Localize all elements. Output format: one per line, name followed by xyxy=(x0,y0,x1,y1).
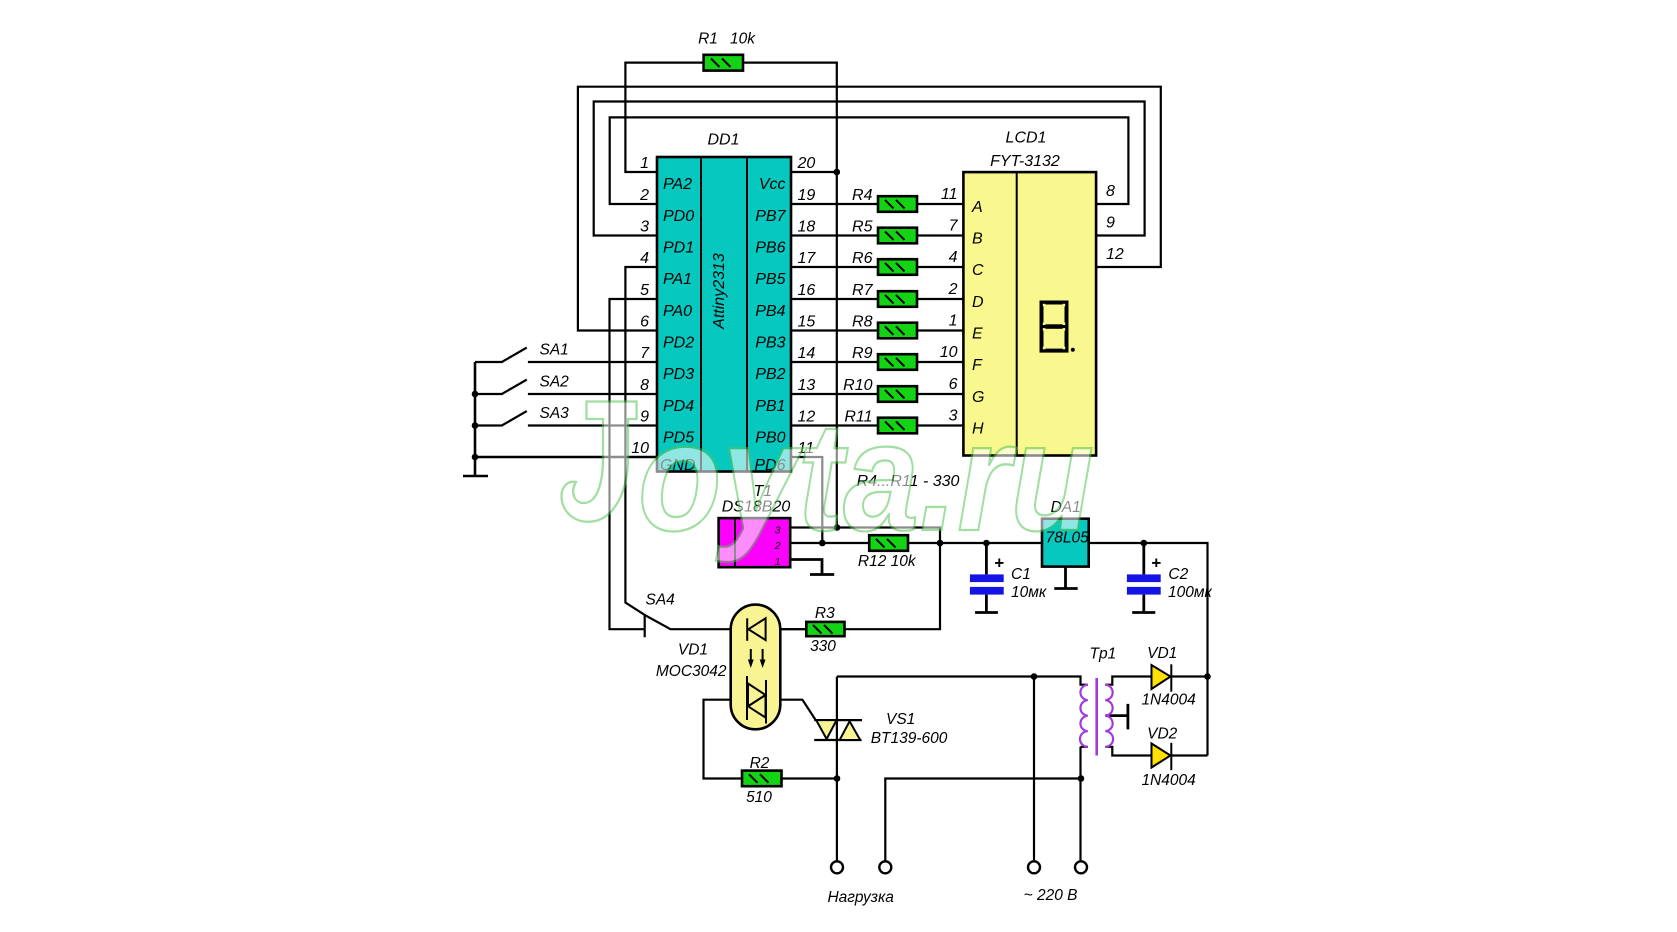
svg-text:C1: C1 xyxy=(1011,566,1031,583)
svg-text:LCD1: LCD1 xyxy=(1006,130,1047,147)
svg-text:SA1: SA1 xyxy=(540,342,569,359)
svg-text:R3: R3 xyxy=(815,605,835,622)
svg-text:7: 7 xyxy=(640,345,650,362)
svg-text:A: A xyxy=(971,199,983,216)
svg-text:SA3: SA3 xyxy=(540,405,570,422)
svg-text:R9: R9 xyxy=(852,345,873,362)
svg-text:1N4004: 1N4004 xyxy=(1141,772,1196,789)
svg-text:R4: R4 xyxy=(852,187,873,204)
svg-text:B: B xyxy=(972,231,983,248)
svg-text:4: 4 xyxy=(640,250,649,267)
svg-text:C2: C2 xyxy=(1168,566,1188,583)
svg-text:PB5: PB5 xyxy=(755,271,785,288)
svg-text:7: 7 xyxy=(949,218,959,235)
svg-text:PD0: PD0 xyxy=(663,208,694,225)
svg-text:10мк: 10мк xyxy=(1011,584,1047,601)
svg-text:PD1: PD1 xyxy=(663,240,694,257)
svg-text:SA2: SA2 xyxy=(540,374,570,391)
svg-text:510: 510 xyxy=(746,789,772,806)
svg-text:3: 3 xyxy=(640,219,649,236)
svg-text:FYT-3132: FYT-3132 xyxy=(990,153,1060,170)
svg-text:18: 18 xyxy=(798,219,816,236)
svg-text:10k: 10k xyxy=(730,31,756,48)
svg-text:~ 220 В: ~ 220 В xyxy=(1024,887,1078,904)
svg-text:15: 15 xyxy=(798,314,816,331)
svg-text:PB2: PB2 xyxy=(755,366,785,383)
svg-text:PA1: PA1 xyxy=(663,271,692,288)
svg-text:PB3: PB3 xyxy=(755,335,785,352)
svg-text:E: E xyxy=(972,326,983,343)
svg-text:Vcc: Vcc xyxy=(759,176,786,193)
svg-text:1: 1 xyxy=(640,155,649,172)
svg-text:1N4004: 1N4004 xyxy=(1141,692,1196,709)
svg-text:VD1: VD1 xyxy=(678,642,708,659)
svg-text:9: 9 xyxy=(1106,215,1115,232)
svg-text:R2: R2 xyxy=(750,755,770,772)
svg-text:Tp1: Tp1 xyxy=(1090,646,1117,663)
svg-text:11: 11 xyxy=(941,186,958,203)
svg-text:oyta.ru: oyta.ru xyxy=(638,390,1094,563)
svg-text:16: 16 xyxy=(798,282,816,299)
svg-text:Attiny2313: Attiny2313 xyxy=(711,253,728,330)
svg-text:330: 330 xyxy=(810,638,836,655)
svg-text:BT139-600: BT139-600 xyxy=(871,730,948,747)
svg-text:DD1: DD1 xyxy=(707,132,739,149)
svg-text:PD2: PD2 xyxy=(663,335,694,352)
svg-text:PD3: PD3 xyxy=(663,366,694,383)
svg-text:C: C xyxy=(972,262,984,279)
svg-text:PA0: PA0 xyxy=(663,303,692,320)
svg-text:Нагрузка: Нагрузка xyxy=(827,889,894,906)
svg-text:12: 12 xyxy=(1106,246,1124,263)
svg-text:6: 6 xyxy=(640,314,649,331)
svg-text:5: 5 xyxy=(640,282,649,299)
svg-text:100мк: 100мк xyxy=(1168,584,1212,601)
svg-text:PB4: PB4 xyxy=(755,303,785,320)
svg-text:14: 14 xyxy=(798,345,816,362)
svg-text:PB6: PB6 xyxy=(755,240,785,257)
svg-text:19: 19 xyxy=(798,187,816,204)
svg-text:VS1: VS1 xyxy=(886,711,915,728)
svg-text:PB7: PB7 xyxy=(755,208,786,225)
svg-text:20: 20 xyxy=(797,155,816,172)
svg-text:R1: R1 xyxy=(698,31,718,48)
svg-text:PA2: PA2 xyxy=(663,176,692,193)
svg-text:R5: R5 xyxy=(852,219,873,236)
svg-text:1: 1 xyxy=(949,313,958,330)
svg-text:2: 2 xyxy=(948,281,958,298)
svg-text:17: 17 xyxy=(798,250,817,267)
svg-text:D: D xyxy=(972,294,984,311)
svg-text:MOC3042: MOC3042 xyxy=(656,663,727,680)
svg-text:R6: R6 xyxy=(852,250,873,267)
svg-text:10: 10 xyxy=(940,344,958,361)
svg-text:8: 8 xyxy=(1106,183,1115,200)
svg-text:2: 2 xyxy=(639,187,649,204)
svg-text:F: F xyxy=(972,357,983,374)
svg-text:4: 4 xyxy=(949,249,958,266)
svg-text:R7: R7 xyxy=(852,282,874,299)
svg-text:+: + xyxy=(1151,554,1161,573)
svg-text:VD2: VD2 xyxy=(1147,726,1178,743)
svg-text:R8: R8 xyxy=(852,314,873,331)
svg-text:SA4: SA4 xyxy=(646,592,676,609)
svg-text:VD1: VD1 xyxy=(1147,645,1177,662)
